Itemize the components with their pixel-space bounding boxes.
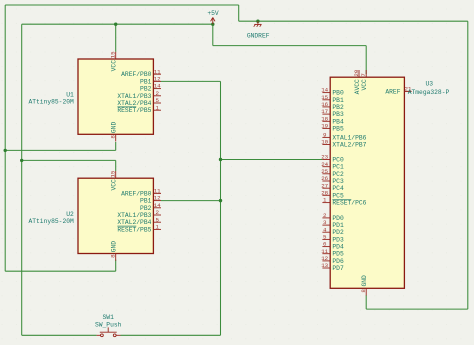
svg-text:28: 28	[321, 189, 328, 196]
svg-text:5: 5	[155, 97, 159, 104]
svg-text:26: 26	[321, 175, 328, 182]
svg-text:XTAL2/PB4: XTAL2/PB4	[117, 219, 151, 226]
svg-text:PB2: PB2	[140, 86, 152, 93]
svg-text:RESET/PB5: RESET/PB5	[117, 226, 151, 233]
svg-text:ATmega328-P: ATmega328-P	[408, 89, 450, 96]
svg-text:16: 16	[321, 101, 328, 108]
svg-text:19: 19	[321, 123, 328, 130]
svg-text:SW_Push: SW_Push	[95, 322, 122, 329]
svg-text:9: 9	[323, 132, 327, 139]
svg-text:SW1: SW1	[103, 314, 115, 321]
svg-text:PD0: PD0	[332, 215, 344, 222]
svg-text:PC0: PC0	[332, 157, 344, 164]
svg-text:GND: GND	[361, 275, 368, 287]
svg-text:RESET/PC6: RESET/PC6	[332, 200, 366, 207]
svg-text:PC2: PC2	[332, 171, 344, 178]
svg-text:GNDREF: GNDREF	[247, 33, 270, 40]
svg-text:11: 11	[154, 188, 161, 195]
svg-text:24: 24	[321, 161, 328, 168]
svg-text:PC5: PC5	[332, 192, 344, 199]
svg-text:PD1: PD1	[332, 222, 344, 229]
svg-text:1: 1	[155, 104, 159, 111]
svg-text:8: 8	[360, 289, 367, 293]
svg-text:AVCC: AVCC	[354, 79, 361, 94]
svg-text:PC1: PC1	[332, 164, 344, 171]
svg-text:3: 3	[323, 219, 327, 226]
svg-text:PD6: PD6	[332, 258, 344, 265]
svg-text:PC4: PC4	[332, 185, 344, 192]
svg-text:7: 7	[360, 73, 367, 77]
svg-text:AREF/PB0: AREF/PB0	[121, 71, 151, 78]
svg-text:14: 14	[321, 87, 328, 94]
svg-text:12: 12	[321, 255, 328, 262]
svg-text:VCC: VCC	[111, 60, 118, 72]
svg-text:25: 25	[321, 168, 328, 175]
svg-text:14: 14	[154, 202, 161, 209]
svg-text:XTAL2/PB4: XTAL2/PB4	[117, 100, 151, 107]
svg-text:2: 2	[323, 212, 327, 219]
svg-text:AREF/PB0: AREF/PB0	[121, 190, 151, 197]
svg-text:17: 17	[321, 108, 328, 115]
svg-text:PD4: PD4	[332, 244, 344, 251]
svg-text:PB1: PB1	[140, 78, 152, 85]
svg-text:1: 1	[155, 224, 159, 231]
svg-text:AREF: AREF	[385, 89, 400, 96]
svg-text:ATtiny85-20M: ATtiny85-20M	[28, 99, 74, 106]
svg-text:11: 11	[154, 68, 161, 75]
svg-text:23: 23	[321, 154, 328, 161]
svg-text:ATtiny85-20M: ATtiny85-20M	[28, 218, 74, 225]
svg-text:20: 20	[353, 69, 360, 76]
svg-text:U3: U3	[426, 81, 434, 88]
svg-text:15: 15	[110, 170, 117, 177]
svg-text:6: 6	[323, 241, 327, 248]
svg-text:U1: U1	[66, 91, 74, 98]
svg-text:13: 13	[321, 262, 328, 269]
svg-text:18: 18	[321, 115, 328, 122]
svg-text:PB2: PB2	[140, 205, 152, 212]
svg-text:PB3: PB3	[332, 111, 344, 118]
svg-text:4: 4	[323, 226, 327, 233]
svg-text:XTAL2/PB7: XTAL2/PB7	[332, 142, 366, 149]
svg-text:PC3: PC3	[332, 178, 344, 185]
svg-text:14: 14	[154, 83, 161, 90]
svg-text:GND: GND	[111, 241, 118, 253]
svg-text:+5V: +5V	[207, 10, 219, 17]
svg-text:15: 15	[321, 94, 328, 101]
svg-text:PB1: PB1	[140, 198, 152, 205]
svg-text:2: 2	[155, 90, 159, 97]
svg-text:PB5: PB5	[332, 125, 344, 132]
svg-text:12: 12	[154, 76, 161, 83]
svg-text:10: 10	[321, 139, 328, 146]
svg-text:XTAL1/PB6: XTAL1/PB6	[332, 134, 366, 141]
svg-text:11: 11	[321, 248, 328, 255]
svg-text:15: 15	[110, 51, 117, 58]
svg-text:PB2: PB2	[332, 104, 344, 111]
svg-text:XTAL1/PB3: XTAL1/PB3	[117, 93, 151, 100]
svg-text:5: 5	[323, 234, 327, 241]
svg-text:5: 5	[155, 216, 159, 223]
svg-text:12: 12	[154, 195, 161, 202]
svg-text:RESET/PB5: RESET/PB5	[117, 107, 151, 114]
svg-text:GND: GND	[111, 122, 118, 134]
svg-text:VCC: VCC	[111, 179, 118, 191]
svg-text:8: 8	[110, 135, 117, 139]
svg-text:PB0: PB0	[332, 90, 344, 97]
svg-text:PD3: PD3	[332, 236, 344, 243]
svg-text:PB4: PB4	[332, 118, 344, 125]
svg-text:27: 27	[321, 182, 328, 189]
svg-text:XTAL1/PB3: XTAL1/PB3	[117, 212, 151, 219]
svg-text:PD2: PD2	[332, 229, 344, 236]
svg-text:PB1: PB1	[332, 97, 344, 104]
svg-text:2: 2	[155, 209, 159, 216]
svg-text:VCC: VCC	[361, 79, 368, 91]
svg-text:1: 1	[323, 197, 327, 204]
svg-text:U2: U2	[66, 211, 74, 218]
svg-text:PD5: PD5	[332, 251, 344, 258]
svg-text:PD7: PD7	[332, 265, 344, 272]
svg-text:8: 8	[110, 254, 117, 258]
